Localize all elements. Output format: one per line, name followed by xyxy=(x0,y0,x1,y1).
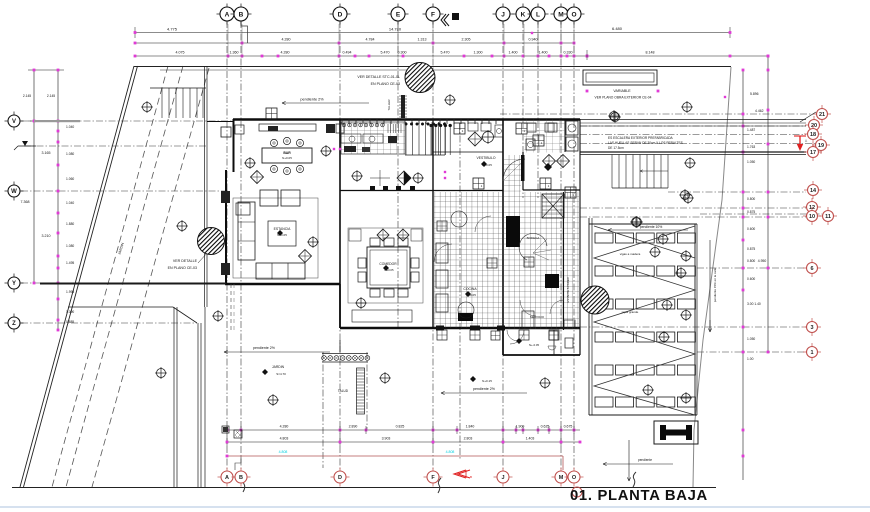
svg-text:4.808: 4.808 xyxy=(446,450,455,454)
svg-text:4.280: 4.280 xyxy=(280,425,289,429)
svg-text:0.875: 0.875 xyxy=(747,247,755,251)
svg-text:17: 17 xyxy=(810,150,816,156)
svg-text:1.300: 1.300 xyxy=(474,51,483,55)
svg-text:1.487: 1.487 xyxy=(747,128,755,132)
svg-text:7.368: 7.368 xyxy=(21,200,30,204)
svg-text:1.050: 1.050 xyxy=(747,160,755,164)
svg-text:B: B xyxy=(239,11,244,18)
svg-text:1: 1 xyxy=(481,184,483,188)
svg-text:5.896: 5.896 xyxy=(750,92,759,96)
svg-text:0.875: 0.875 xyxy=(747,210,755,214)
svg-text:1.090: 1.090 xyxy=(66,310,74,314)
svg-text:0.825: 0.825 xyxy=(396,425,405,429)
svg-text:VER DETALLE STC-01-0L: VER DETALLE STC-01-0L xyxy=(357,75,400,79)
svg-text:4.803: 4.803 xyxy=(280,437,289,441)
svg-text:4.462: 4.462 xyxy=(755,109,764,113)
svg-text:M: M xyxy=(558,11,563,18)
svg-text:19: 19 xyxy=(818,143,824,149)
svg-text:COMEDOR: COMEDOR xyxy=(379,262,397,266)
svg-text:1.060: 1.060 xyxy=(66,177,74,181)
svg-text:1.00: 1.00 xyxy=(747,357,754,361)
svg-text:0.800: 0.800 xyxy=(747,259,755,263)
svg-text:VER DETALLE: VER DETALLE xyxy=(173,259,198,263)
svg-text:1.763: 1.763 xyxy=(747,145,755,149)
svg-text:3.165: 3.165 xyxy=(42,151,51,155)
svg-text:21: 21 xyxy=(819,112,825,118)
svg-text:J: J xyxy=(501,11,505,18)
svg-text:0.675: 0.675 xyxy=(564,425,573,429)
svg-text:B: B xyxy=(470,475,472,479)
svg-text:K: K xyxy=(521,11,526,18)
svg-text:5.470: 5.470 xyxy=(381,51,390,55)
svg-text:JARDIN: JARDIN xyxy=(272,365,285,369)
svg-text:6.480: 6.480 xyxy=(612,26,623,31)
svg-text:ESTANCIA: ESTANCIA xyxy=(274,227,291,231)
svg-text:1.040: 1.040 xyxy=(66,201,74,205)
svg-text:JARDIN: JARDIN xyxy=(117,242,125,255)
svg-text:11: 11 xyxy=(825,214,831,220)
svg-text:N+0.15: N+0.15 xyxy=(482,379,492,383)
svg-text:4.775: 4.775 xyxy=(167,27,178,32)
svg-text:DE 17.5cm: DE 17.5cm xyxy=(608,146,624,150)
svg-text:1.840: 1.840 xyxy=(466,425,475,429)
svg-text:2.890: 2.890 xyxy=(349,425,358,429)
svg-text:0.800: 0.800 xyxy=(747,197,755,201)
svg-text:BAR: BAR xyxy=(283,151,291,155)
svg-text:1.880: 1.880 xyxy=(66,222,74,226)
svg-text:1.400: 1.400 xyxy=(539,51,548,55)
svg-text:L: L xyxy=(536,11,540,18)
svg-text:1.403: 1.403 xyxy=(526,437,535,441)
svg-text:3: 3 xyxy=(810,325,813,331)
svg-text:0.600: 0.600 xyxy=(747,277,755,281)
svg-text:D: D xyxy=(338,475,342,481)
svg-text:1.080: 1.080 xyxy=(66,244,74,248)
svg-text:TALUD: TALUD xyxy=(338,389,349,393)
svg-text:BODEGA: BODEGA xyxy=(527,236,540,240)
svg-text:1.040: 1.040 xyxy=(66,125,74,129)
svg-text:VER PLANO OBRA EXTERIOR CE-04: VER PLANO OBRA EXTERIOR CE-04 xyxy=(595,96,652,100)
svg-text:4.784: 4.784 xyxy=(366,38,375,42)
svg-text:10: 10 xyxy=(809,214,815,220)
svg-text:1.050: 1.050 xyxy=(747,337,755,341)
svg-text:0.885: 0.885 xyxy=(66,320,74,324)
svg-text:A: A xyxy=(225,475,229,481)
svg-text:rejas grande: rejas grande xyxy=(622,310,639,314)
svg-text:V: V xyxy=(12,119,16,125)
svg-text:1.495: 1.495 xyxy=(66,261,74,265)
svg-text:3.00 1.40: 3.00 1.40 xyxy=(747,302,761,306)
svg-text:O: O xyxy=(572,475,577,481)
svg-text:F: F xyxy=(431,11,435,18)
svg-text:W: W xyxy=(11,189,17,195)
svg-text:ESTANTE A PARED: ESTANTE A PARED xyxy=(566,277,570,302)
svg-text:1: 1 xyxy=(810,350,813,356)
svg-text:1.080: 1.080 xyxy=(66,152,74,156)
svg-text:LAS HUELLAS SERAN DE 30cm Y LO: LAS HUELLAS SERAN DE 30cm Y LOS PERALTES xyxy=(608,141,683,145)
svg-text:S=4.70: S=4.70 xyxy=(276,372,286,376)
svg-text:2.803: 2.803 xyxy=(464,437,473,441)
svg-text:A: A xyxy=(805,139,808,143)
svg-text:B: B xyxy=(239,475,243,481)
svg-text:01. PLANTA BAJA: 01. PLANTA BAJA xyxy=(570,488,708,504)
svg-text:1.313: 1.313 xyxy=(418,38,427,42)
svg-text:14: 14 xyxy=(810,188,817,194)
svg-text:1.400: 1.400 xyxy=(509,51,518,55)
svg-text:2.305: 2.305 xyxy=(462,38,471,42)
svg-text:COCINA: COCINA xyxy=(463,287,477,291)
svg-text:0.600: 0.600 xyxy=(747,227,755,231)
svg-text:3.210: 3.210 xyxy=(42,234,51,238)
svg-text:6: 6 xyxy=(810,266,813,272)
svg-text:D: D xyxy=(338,11,343,18)
svg-text:pendiente 2%: pendiente 2% xyxy=(300,98,324,102)
svg-text:4.280: 4.280 xyxy=(281,51,290,55)
svg-text:1.995: 1.995 xyxy=(66,290,74,294)
svg-text:0.940: 0.940 xyxy=(529,38,538,42)
svg-text:pendiente 2%: pendiente 2% xyxy=(253,346,276,350)
svg-text:3.903: 3.903 xyxy=(382,437,391,441)
svg-text:0.494: 0.494 xyxy=(343,51,352,55)
svg-text:J: J xyxy=(501,475,504,481)
svg-text:EN PLANO CE-03: EN PLANO CE-03 xyxy=(371,82,400,86)
svg-text:pendiente 10%: pendiente 10% xyxy=(640,225,663,229)
svg-text:pendiente 2%: pendiente 2% xyxy=(473,387,496,391)
svg-text:0.300: 0.300 xyxy=(398,51,407,55)
svg-text:pendiente 15% en la calle: pendiente 15% en la calle xyxy=(713,267,717,302)
svg-text:2.145: 2.145 xyxy=(47,94,55,98)
svg-text:N+0.05: N+0.05 xyxy=(282,156,292,160)
svg-text:Y: Y xyxy=(12,281,16,287)
svg-text:1: 1 xyxy=(462,129,464,133)
svg-text:14.780: 14.780 xyxy=(389,27,402,32)
svg-text:4.950: 4.950 xyxy=(758,259,767,263)
svg-text:EN PLANO CE-03: EN PLANO CE-03 xyxy=(168,266,197,270)
svg-text:1: 1 xyxy=(548,184,550,188)
svg-text:Z: Z xyxy=(12,321,16,327)
svg-text:2.145: 2.145 xyxy=(23,94,31,98)
svg-text:A: A xyxy=(225,11,230,18)
svg-text:N+-0.05: N+-0.05 xyxy=(529,343,539,347)
svg-text:4.075: 4.075 xyxy=(176,51,185,55)
svg-text:M: M xyxy=(559,475,564,481)
svg-text:vigas a madera: vigas a madera xyxy=(620,252,641,256)
svg-text:TALLER: TALLER xyxy=(387,99,391,111)
svg-text:VARIABLE: VARIABLE xyxy=(613,89,631,93)
svg-text:8.148: 8.148 xyxy=(646,51,655,55)
svg-text:1.360: 1.360 xyxy=(230,51,239,55)
svg-text:pendiente: pendiente xyxy=(638,458,652,462)
svg-text:5.470: 5.470 xyxy=(441,51,450,55)
svg-text:18: 18 xyxy=(810,132,816,138)
svg-text:4.280: 4.280 xyxy=(282,38,291,42)
svg-text:O: O xyxy=(571,11,576,18)
svg-text:E: E xyxy=(396,11,401,18)
svg-text:0.625: 0.625 xyxy=(541,425,550,429)
svg-text:4.808: 4.808 xyxy=(279,450,288,454)
svg-text:0.330: 0.330 xyxy=(564,51,573,55)
svg-text:ES ESCALERA EXTERIOR PREFABRIC: ES ESCALERA EXTERIOR PREFABRICADA xyxy=(608,136,674,140)
svg-text:VESTIBULO: VESTIBULO xyxy=(476,156,495,160)
